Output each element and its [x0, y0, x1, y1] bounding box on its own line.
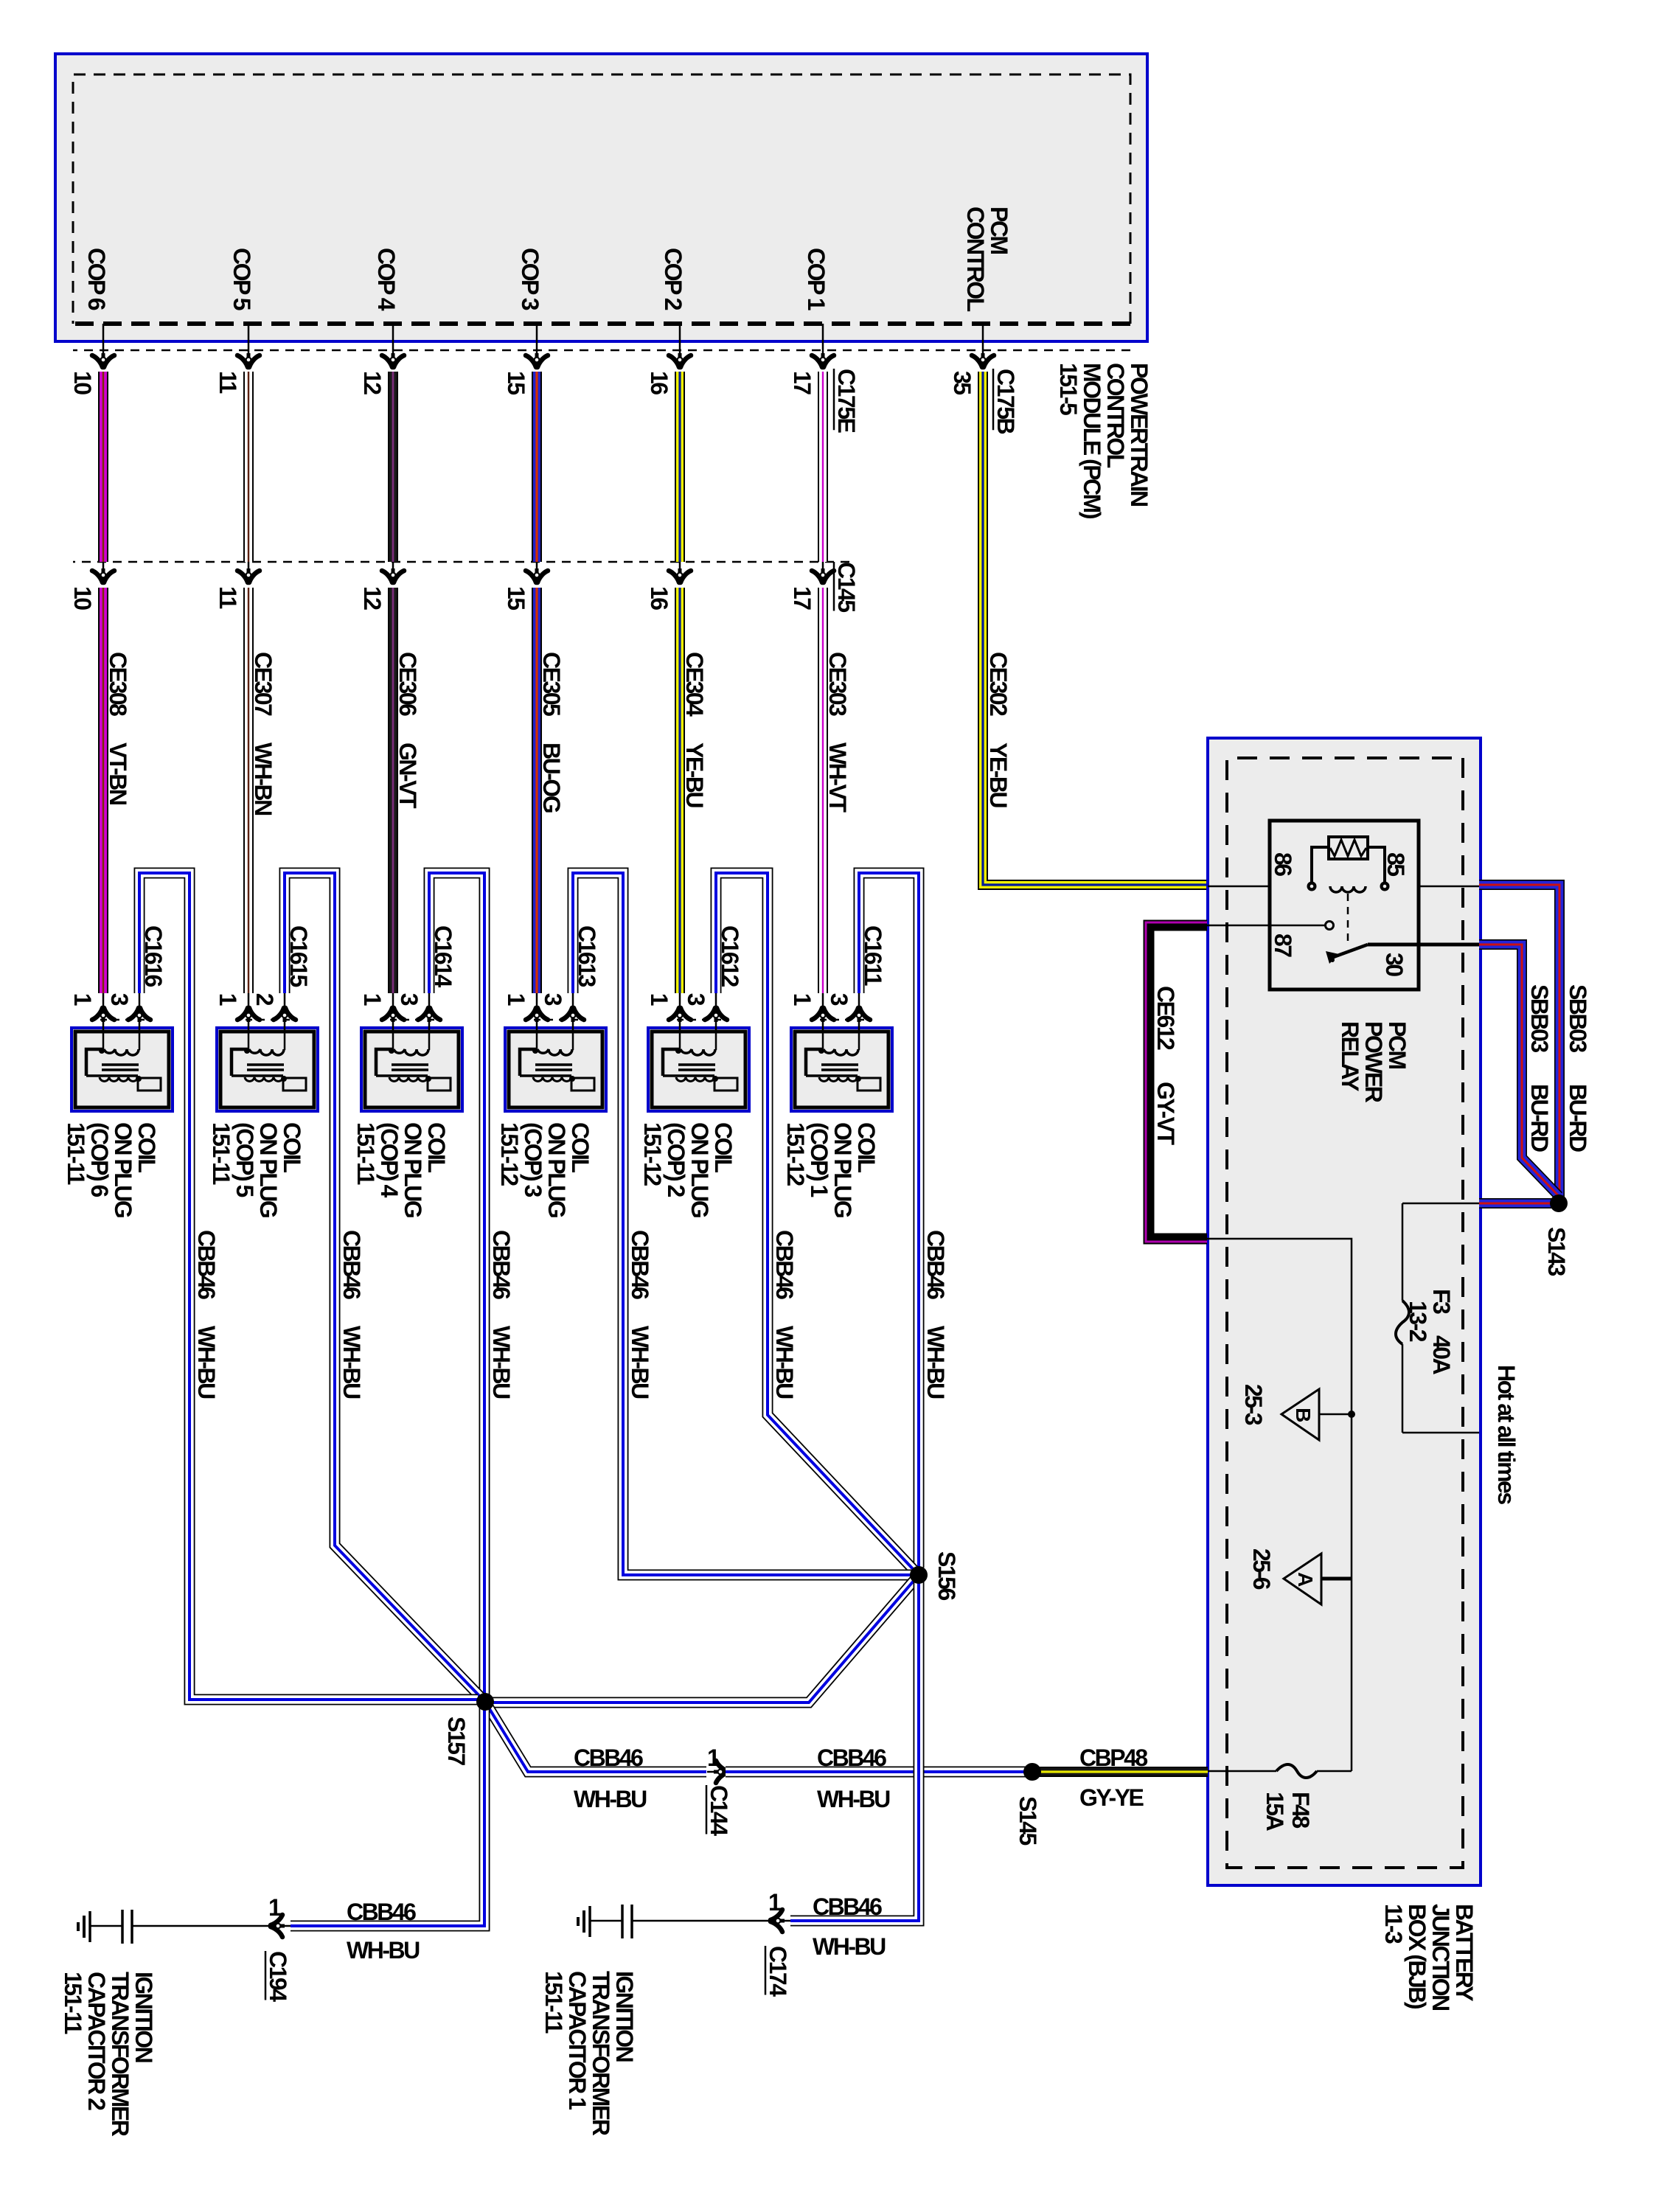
connector C1612 arrow pin 1: [669, 1007, 691, 1022]
svg-text:C175E: C175E: [833, 369, 860, 434]
ground of capacitor 2: [88, 1911, 91, 1942]
svg-text:S156: S156: [933, 1551, 960, 1600]
svg-text:WH-BU: WH-BU: [922, 1326, 949, 1399]
wire CBB46 WH-BU return from COP5: [285, 873, 482, 1699]
off-page triangle A 25-6: [1321, 1577, 1352, 1581]
svg-text:151-12: 151-12: [496, 1122, 523, 1186]
svg-text:CBB46: CBB46: [338, 1230, 365, 1299]
pin lead wire: [102, 324, 105, 355]
svg-text:151-12: 151-12: [782, 1122, 809, 1186]
svg-text:1: 1: [359, 993, 386, 1006]
coil pin 1 lead: [679, 993, 681, 1050]
svg-text:PCM: PCM: [1384, 1021, 1411, 1068]
ignition transformer capacitor 1: [578, 1905, 770, 1938]
connector C175 arrow pin 12: [382, 353, 404, 368]
coil pin 3 lead: [858, 993, 860, 1050]
svg-text:30: 30: [1381, 953, 1408, 976]
svg-text:13-2: 13-2: [1405, 1301, 1431, 1342]
connector C175 arrow pin 17: [812, 353, 834, 368]
svg-text:16: 16: [646, 371, 672, 394]
wire CE304 YE-BU segment 2: [675, 588, 685, 993]
svg-text:(COP) 5: (COP) 5: [232, 1122, 258, 1197]
coil pin 3 lead: [572, 993, 574, 1050]
relay actuator dashed link: [1347, 894, 1349, 946]
svg-text:C145: C145: [833, 562, 860, 612]
connector C145 arrow pin 12: [382, 568, 404, 583]
svg-text:CBB46: CBB46: [347, 1899, 416, 1925]
svg-text:2: 2: [251, 993, 278, 1006]
connector C174 arrow: [770, 1910, 785, 1932]
svg-text:GY-YE: GY-YE: [1079, 1784, 1144, 1811]
ignition coil transformer symbol COP 2: [663, 1048, 737, 1091]
relay coil winding: [1330, 886, 1366, 892]
svg-text:(COP) 3: (COP) 3: [520, 1122, 546, 1197]
coil connector mini dashed line C1615: [243, 1019, 290, 1021]
wire CE612 GY-VT: [1149, 925, 1207, 1239]
wire CE308 VT-BN segment 1: [98, 372, 108, 562]
svg-text:1: 1: [707, 1745, 720, 1771]
coil connector mini dashed line C1616: [97, 1019, 145, 1021]
PCM inner dashed connector border: [73, 74, 1130, 324]
coil connector mini dashed line C1613: [531, 1019, 578, 1021]
coil pin 1 lead: [248, 993, 250, 1050]
svg-text:C174: C174: [765, 1946, 791, 1997]
pin 30 feed line: [1368, 943, 1481, 947]
wire CBB46 WH-BU return from COP1: [859, 873, 919, 1568]
wire CE303 WH-VT segment 1: [818, 372, 828, 562]
svg-text:17: 17: [789, 371, 815, 394]
coil pin 1 lead: [102, 993, 105, 1050]
svg-text:WH-BU: WH-BU: [574, 1786, 647, 1812]
svg-text:S157: S157: [443, 1717, 470, 1765]
svg-text:BU-RD: BU-RD: [1526, 1084, 1553, 1152]
coil on plug COP 2 box: [648, 1028, 749, 1111]
pin lead wire: [248, 324, 250, 355]
svg-text:B: B: [1292, 1408, 1315, 1422]
svg-text:COIL: COIL: [567, 1122, 594, 1172]
wire CE308 VT-BN segment 2: [98, 588, 108, 993]
svg-text:1: 1: [789, 993, 815, 1006]
svg-text:17: 17: [789, 586, 815, 610]
coil pin 3 lead: [428, 993, 431, 1050]
connector C1614 arrow pin 3: [418, 1007, 440, 1022]
svg-text:ON PLUG: ON PLUG: [400, 1122, 426, 1217]
svg-text:25-6: 25-6: [1248, 1548, 1275, 1590]
svg-text:BU-RD: BU-RD: [1565, 1084, 1591, 1152]
splice S143: [1550, 1194, 1568, 1212]
svg-text:1: 1: [69, 993, 96, 1006]
connector C145 pass-through lead: [248, 562, 250, 570]
svg-text:CE303: CE303: [824, 652, 851, 716]
pin lead wire: [392, 324, 394, 355]
connector C145 arrow pin 17: [812, 568, 834, 583]
wire CBB46 WH-BU return from COP2: [716, 873, 916, 1572]
connector C145 dashed line: [73, 561, 849, 563]
svg-text:CE307: CE307: [250, 652, 276, 716]
coil pin 3 lead: [715, 993, 717, 1050]
coil on plug COP 4 box: [361, 1028, 462, 1111]
svg-text:ON PLUG: ON PLUG: [686, 1122, 713, 1217]
svg-text:40A: 40A: [1428, 1335, 1455, 1375]
pin lead wire: [982, 324, 984, 355]
ignition coil transformer symbol COP 6: [86, 1048, 161, 1091]
svg-text:WH-VT: WH-VT: [824, 742, 851, 813]
wire CE304 YE-BU segment 1: [675, 372, 685, 562]
wire SBB03 BU-RD to fuse F3: [1479, 1198, 1559, 1208]
svg-text:COIL: COIL: [279, 1122, 305, 1172]
relay pin 87 contact: [1326, 922, 1334, 930]
svg-text:151-11: 151-11: [60, 1972, 86, 2034]
wire CBB46 WH-BU link S156 to S157: [485, 1575, 919, 1703]
svg-text:WH-BU: WH-BU: [193, 1326, 220, 1399]
wire CE305 BU-OG segment 1: [532, 372, 542, 562]
wire CE302 YE-BU pcm control feed: [983, 372, 1208, 885]
battery junction box BJB: [1208, 738, 1481, 1885]
splice S157: [476, 1693, 494, 1711]
svg-text:1: 1: [215, 993, 241, 1006]
svg-text:3: 3: [106, 993, 133, 1006]
svg-text:ON PLUG: ON PLUG: [110, 1122, 136, 1217]
svg-text:CBB46: CBB46: [193, 1230, 220, 1299]
svg-text:35: 35: [949, 371, 975, 394]
CE612 continuation inside BJB to fuse bus: [1207, 1239, 1352, 1771]
svg-text:C194: C194: [265, 1951, 291, 2002]
svg-text:CBB46: CBB46: [817, 1745, 886, 1771]
connector C194 arrow: [270, 1915, 285, 1937]
svg-text:PCM: PCM: [986, 206, 1012, 254]
relay suppression resistor: [1329, 837, 1368, 859]
coil connector mini dashed line C1612: [674, 1019, 721, 1021]
svg-text:WH-BU: WH-BU: [817, 1786, 890, 1812]
coil connector mini dashed line C1614: [387, 1019, 434, 1021]
wire CBB46 WH-BU return from COP6: [139, 873, 478, 1700]
svg-text:1: 1: [503, 993, 529, 1006]
svg-text:S143: S143: [1543, 1227, 1570, 1276]
svg-text:F48: F48: [1287, 1792, 1314, 1828]
svg-text:86: 86: [1270, 852, 1296, 876]
svg-text:CE612: CE612: [1152, 986, 1179, 1050]
coil pin 3 lead: [139, 993, 141, 1050]
svg-text:87: 87: [1270, 933, 1296, 957]
BJB inner dashed border: [1227, 758, 1463, 1868]
PCM power relay box K1: [1270, 821, 1419, 990]
svg-text:85: 85: [1382, 852, 1409, 876]
connector C174 lead: [782, 1920, 790, 1922]
svg-text:CBB46: CBB46: [574, 1745, 643, 1771]
svg-text:(COP) 4: (COP) 4: [376, 1122, 403, 1198]
svg-text:COP 5: COP 5: [229, 248, 255, 310]
svg-text:CAPACITOR 1: CAPACITOR 1: [564, 1971, 591, 2110]
connector C175 arrow pin 10: [92, 353, 114, 368]
svg-text:SBB03: SBB03: [1526, 984, 1553, 1052]
connector C145 pass-through lead: [102, 562, 105, 570]
svg-text:(COP) 1: (COP) 1: [806, 1122, 832, 1197]
coil pin 2 lead: [284, 993, 286, 1050]
svg-text:GN-VT: GN-VT: [394, 742, 421, 809]
svg-text:COP 4: COP 4: [373, 248, 400, 311]
svg-text:15: 15: [503, 371, 529, 394]
svg-text:CE305: CE305: [538, 652, 565, 716]
connector C145 arrow pin 16: [669, 568, 691, 583]
svg-text:CONTROL: CONTROL: [1102, 363, 1129, 468]
connector C145 arrow pin 10: [92, 568, 114, 583]
svg-text:151-11: 151-11: [63, 1122, 89, 1185]
connector C1616 arrow pin 1: [92, 1007, 114, 1022]
svg-text:C144: C144: [706, 1785, 732, 1836]
svg-text:12: 12: [359, 586, 386, 610]
coil on plug COP 5 box: [217, 1028, 318, 1111]
wire CE307 WH-BN segment 1: [243, 372, 254, 562]
svg-text:CE304: CE304: [681, 652, 708, 717]
relay terminal 86: [1307, 882, 1317, 891]
connector C175 arrow pin 35: [972, 353, 994, 368]
svg-text:COIL: COIL: [710, 1122, 737, 1172]
wire CBB46 WH-BU C144 to S145: [726, 1767, 1026, 1778]
svg-text:1: 1: [646, 993, 672, 1006]
svg-text:A: A: [1294, 1572, 1317, 1587]
connector C144 lead: [707, 1771, 717, 1773]
connector C1612 arrow pin 3: [705, 1007, 727, 1022]
resistor lead to 85: [1368, 847, 1385, 885]
svg-text:BATTERY: BATTERY: [1451, 1904, 1478, 2001]
svg-text:COP 3: COP 3: [517, 248, 543, 310]
svg-text:COIL: COIL: [423, 1122, 450, 1172]
svg-text:11: 11: [215, 371, 241, 394]
connector C145 pass-through lead: [679, 562, 681, 570]
connector C1615 arrow pin 1: [237, 1007, 260, 1022]
svg-text:POWER: POWER: [1360, 1021, 1387, 1103]
connector C1611 arrow pin 3: [848, 1007, 870, 1022]
coil pin 1 lead: [822, 993, 824, 1050]
ground of capacitor 1: [588, 1906, 591, 1937]
fuse F48 circuit: [1317, 1770, 1352, 1773]
wire CBB46 WH-BU S157 to C194: [291, 1702, 484, 1926]
svg-text:COP 6: COP 6: [83, 248, 110, 310]
svg-text:CAPACITOR 2: CAPACITOR 2: [83, 1972, 110, 2110]
svg-text:11-3: 11-3: [1380, 1904, 1407, 1944]
svg-text:CONTROL: CONTROL: [962, 206, 989, 312]
connector C175 dashed line: [73, 349, 1130, 352]
svg-text:CE302: CE302: [985, 652, 1012, 716]
svg-text:151-5: 151-5: [1055, 363, 1082, 415]
connector C175 arrow pin 15: [526, 353, 548, 368]
pin 87 lead to CE612: [1207, 925, 1325, 927]
svg-text:RELAY: RELAY: [1337, 1021, 1363, 1091]
fuse F48 15A: [1276, 1764, 1317, 1778]
svg-text:(COP) 6: (COP) 6: [86, 1122, 113, 1197]
svg-text:POWERTRAIN: POWERTRAIN: [1126, 363, 1152, 506]
svg-text:(COP) 2: (COP) 2: [663, 1122, 689, 1197]
wire CE307 WH-BN segment 2: [243, 588, 254, 993]
svg-text:COIL: COIL: [853, 1122, 880, 1172]
wire CBB46 WH-BU S157 to C144: [485, 1702, 706, 1772]
svg-text:WH-BU: WH-BU: [338, 1326, 365, 1399]
svg-text:WH-BN: WH-BN: [250, 742, 276, 815]
wire SBB03 BU-RD from relay 85: [1479, 885, 1559, 1199]
wire CBB46 WH-BU S156 to C174: [790, 1575, 919, 1921]
svg-text:25-3: 25-3: [1240, 1384, 1267, 1425]
svg-text:ON PLUG: ON PLUG: [255, 1122, 282, 1217]
fuse F3 40A: [1396, 1301, 1409, 1344]
svg-text:CBB46: CBB46: [627, 1230, 653, 1299]
svg-text:SBB03: SBB03: [1565, 984, 1591, 1052]
svg-text:JUNCTION: JUNCTION: [1427, 1904, 1454, 2010]
pin lead wire: [679, 324, 681, 355]
splice S145: [1023, 1763, 1041, 1781]
coil on plug COP 6 box: [72, 1028, 173, 1111]
ignition transformer capacitor 2: [78, 1910, 270, 1944]
coil pin 1 lead: [536, 993, 538, 1050]
connector C145 pass-through lead: [822, 562, 824, 570]
coil connector mini dashed line C1611: [817, 1019, 864, 1021]
connector C144 arrow: [714, 1761, 728, 1783]
wire CE305 BU-OG segment 2: [532, 588, 542, 993]
svg-text:C175B: C175B: [992, 369, 1019, 434]
off-page triangle B 25-3: [1319, 1413, 1350, 1416]
connector C145 pass-through lead: [392, 562, 394, 570]
svg-text:GY-VT: GY-VT: [1152, 1082, 1179, 1145]
ignition coil transformer symbol COP 3: [520, 1048, 594, 1091]
connector C175 arrow pin 11: [237, 353, 260, 368]
svg-text:CBB46: CBB46: [771, 1230, 798, 1299]
connector C1615 arrow pin 2: [274, 1007, 296, 1022]
wire SBB03 BU-RD from relay 30: [1479, 945, 1559, 1196]
svg-text:YE-BU: YE-BU: [681, 742, 708, 807]
svg-text:10: 10: [69, 371, 96, 394]
svg-text:Hot at all times: Hot at all times: [1493, 1365, 1520, 1504]
svg-text:WH-BU: WH-BU: [347, 1937, 420, 1964]
wire CE306 GN-VT segment 1: [388, 372, 398, 562]
svg-text:10: 10: [69, 586, 96, 610]
connector C1616 arrow pin 3: [128, 1007, 150, 1022]
resistor lead to 86: [1312, 847, 1329, 885]
svg-text:IGNITION: IGNITION: [611, 1971, 638, 2062]
svg-text:WH-BU: WH-BU: [627, 1326, 653, 1399]
svg-text:COP 1: COP 1: [803, 248, 829, 310]
connector C145 pass-through lead: [536, 562, 538, 570]
svg-text:F3: F3: [1428, 1289, 1455, 1314]
svg-text:11: 11: [215, 586, 241, 609]
svg-text:15A: 15A: [1262, 1792, 1288, 1832]
relay terminal 85: [1380, 882, 1390, 891]
svg-text:3: 3: [826, 993, 852, 1006]
pin lead wire: [536, 324, 538, 355]
relay coil feed line: [1383, 886, 1481, 888]
svg-text:S145: S145: [1015, 1796, 1041, 1845]
svg-text:CBB46: CBB46: [813, 1893, 882, 1920]
svg-text:3: 3: [396, 993, 422, 1006]
connector C145 arrow pin 15: [526, 568, 548, 583]
svg-text:15: 15: [503, 586, 529, 610]
wire CBB46 WH-BU return from COP4: [429, 873, 484, 1694]
svg-text:1: 1: [268, 1894, 281, 1921]
svg-text:16: 16: [646, 586, 672, 610]
svg-text:3: 3: [540, 993, 566, 1006]
svg-text:ON PLUG: ON PLUG: [543, 1122, 570, 1217]
wire CBP48 GY-YE: [1035, 1767, 1208, 1777]
svg-text:MODULE (PCM): MODULE (PCM): [1079, 363, 1105, 519]
ignition coil transformer symbol COP 5: [232, 1048, 306, 1091]
svg-text:ON PLUG: ON PLUG: [829, 1122, 856, 1217]
svg-text:3: 3: [683, 993, 709, 1006]
svg-text:WH-BU: WH-BU: [771, 1326, 798, 1399]
svg-text:151-11: 151-11: [352, 1122, 379, 1185]
svg-text:COIL: COIL: [133, 1122, 160, 1172]
svg-text:CBB46: CBB46: [488, 1230, 515, 1299]
connector C1614 arrow pin 1: [382, 1007, 404, 1022]
coil on plug COP 1 box: [791, 1028, 892, 1111]
svg-text:WH-BU: WH-BU: [813, 1933, 886, 1960]
PCM powertrain control module box U1: [55, 54, 1147, 341]
svg-text:151-11: 151-11: [540, 1971, 567, 2034]
connector C1613 arrow pin 3: [562, 1007, 584, 1022]
svg-text:BOX (BJB): BOX (BJB): [1404, 1904, 1430, 2009]
svg-text:CE306: CE306: [394, 652, 421, 716]
svg-text:VT-BN: VT-BN: [105, 742, 131, 804]
svg-text:TRANSFORMER: TRANSFORMER: [588, 1971, 614, 2136]
svg-text:12: 12: [359, 371, 386, 394]
svg-text:CE308: CE308: [105, 652, 131, 716]
pin lead wire: [822, 324, 824, 355]
svg-text:1: 1: [768, 1889, 781, 1916]
connector C175 arrow pin 16: [669, 353, 691, 368]
svg-text:COP 2: COP 2: [660, 248, 686, 310]
connector C194 lead: [282, 1925, 291, 1927]
splice S156: [910, 1566, 928, 1584]
svg-text:151-11: 151-11: [208, 1122, 234, 1185]
svg-text:BU-OG: BU-OG: [538, 742, 565, 813]
svg-text:WH-BU: WH-BU: [488, 1326, 515, 1399]
ignition coil transformer symbol COP 4: [376, 1048, 451, 1091]
ignition coil transformer symbol COP 1: [806, 1048, 880, 1091]
svg-text:IGNITION: IGNITION: [131, 1972, 157, 2062]
svg-text:YE-BU: YE-BU: [985, 742, 1012, 807]
coil on plug COP 3 box: [505, 1028, 606, 1111]
connector C1613 arrow pin 1: [526, 1007, 548, 1022]
svg-text:TRANSFORMER: TRANSFORMER: [107, 1972, 133, 2137]
wire CE303 WH-VT segment 2: [818, 588, 828, 993]
fuse F3 circuit: [1402, 1203, 1481, 1433]
connector C1611 arrow pin 1: [812, 1007, 834, 1022]
connector C145 arrow pin 11: [237, 568, 260, 583]
wire CE306 GN-VT segment 2: [388, 588, 398, 993]
wire CBB46 WH-BU return from COP3: [573, 873, 911, 1575]
svg-text:CBB46: CBB46: [922, 1230, 949, 1299]
coil pin 1 lead: [392, 993, 394, 1050]
svg-text:CBP48: CBP48: [1079, 1745, 1147, 1771]
svg-text:151-12: 151-12: [639, 1122, 666, 1186]
relay switch arm pin 30: [1329, 945, 1368, 959]
